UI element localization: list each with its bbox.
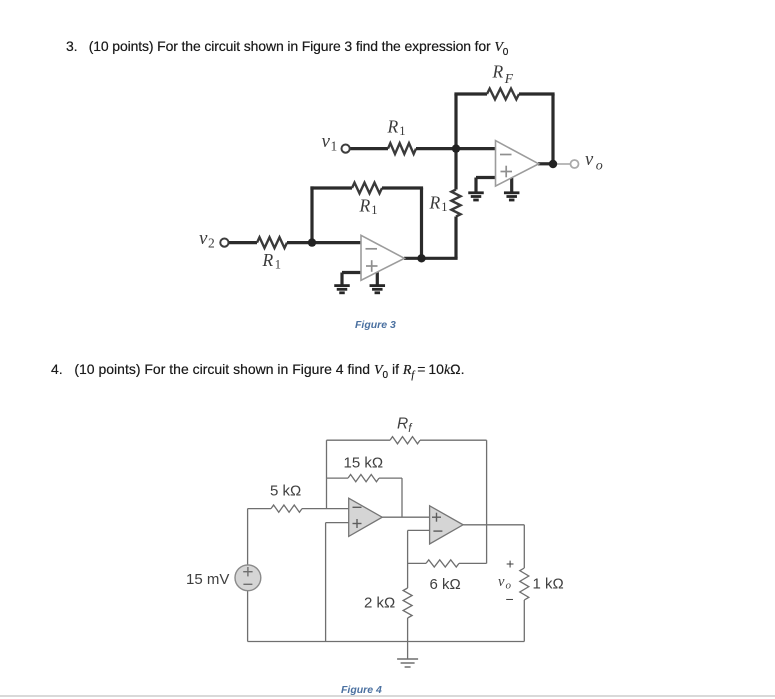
svg-text:R1: R1 xyxy=(359,196,378,218)
svg-text:v2: v2 xyxy=(199,228,215,251)
svg-text:15 mV: 15 mV xyxy=(186,571,229,588)
svg-text:R1: R1 xyxy=(262,250,281,272)
svg-text:vo: vo xyxy=(498,574,511,592)
svg-text:vo: vo xyxy=(585,150,603,174)
svg-text:15 kΩ: 15 kΩ xyxy=(344,455,384,472)
svg-text:2 kΩ: 2 kΩ xyxy=(364,595,395,612)
svg-text:1 kΩ: 1 kΩ xyxy=(533,576,564,593)
svg-text:+: + xyxy=(506,556,514,572)
svg-text:Rf: Rf xyxy=(397,416,413,436)
svg-text:−: − xyxy=(506,591,514,607)
svg-text:6 kΩ: 6 kΩ xyxy=(430,576,461,593)
svg-text:R1: R1 xyxy=(387,117,406,139)
svg-text:5 kΩ: 5 kΩ xyxy=(270,483,301,500)
svg-text:v1: v1 xyxy=(322,131,338,154)
svg-text:R1: R1 xyxy=(429,193,448,215)
svg-text:RF: RF xyxy=(492,62,514,87)
